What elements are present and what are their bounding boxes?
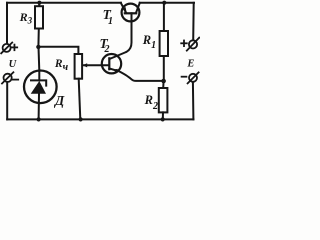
wire left edge lower (from -U terminal to bottom rail): [6, 82, 8, 120]
svg-text:E: E: [186, 59, 194, 70]
terminal +E output: [181, 38, 199, 51]
node D bottom junction: [37, 117, 41, 121]
node R3 top junction: [37, 1, 41, 5]
terminal -U input: [2, 72, 18, 83]
zener diode D (stabilitron): [24, 47, 57, 119]
svg-text:Д: Д: [53, 93, 65, 108]
node R3 bottom junction: [36, 45, 40, 49]
wire top rail left segment: [7, 2, 121, 4]
transistor T2: [83, 54, 164, 81]
wire left edge upper (to +U terminal): [6, 3, 8, 44]
resistor R1: [160, 3, 168, 81]
resistor R4 (potentiometer): [75, 54, 88, 119]
terminal +U input: [1, 43, 17, 54]
node R4 bottom junction: [79, 117, 83, 121]
wire top rail right segment: [140, 2, 194, 4]
transistor T1: [121, 3, 140, 22]
node R1 top junction: [162, 1, 166, 5]
wire right edge upper (to +E terminal): [192, 3, 195, 41]
resistor R3: [35, 3, 43, 47]
node R2 bottom junction: [161, 117, 165, 121]
wire bottom rail: [7, 118, 193, 120]
node R1/R2 emitter junction: [161, 79, 166, 84]
terminal -E output: [182, 72, 199, 83]
wire node to R4 top: [38, 47, 78, 54]
wire right edge lower (from -E terminal to bottom rail): [192, 82, 195, 120]
wire T1 base to T2 collector: [110, 13, 132, 59]
resistor R2: [159, 81, 168, 119]
